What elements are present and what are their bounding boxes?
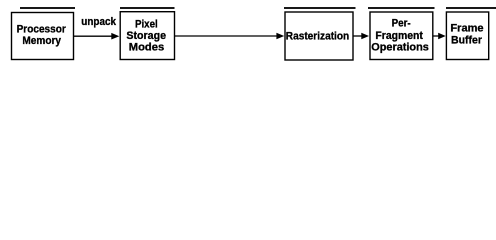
svg-text:Buffer: Buffer [451, 35, 483, 47]
label unpack [81, 16, 116, 28]
svg-text:Frame: Frame [450, 23, 483, 35]
arrow Per-Fragment Operations to Frame Buffer [433, 33, 446, 40]
svg-text:Memory: Memory [22, 35, 61, 47]
partial line (cropped box bottom) above Pixel Storage Modes [120, 7, 175, 9]
partial line (cropped box bottom) above Frame Buffer [446, 7, 496, 9]
partial line (cropped box bottom) above Rasterization [284, 7, 356, 9]
partial line (cropped box bottom) above Per-Fragment Operations [368, 7, 435, 9]
svg-text:Pixel: Pixel [135, 19, 158, 31]
arrow Rasterization to Per-Fragment Operations [354, 33, 370, 40]
box Processor Memory [12, 13, 74, 60]
wire: long arrow Pixel Storage Modes to Rasterization [175, 33, 284, 40]
svg-text:unpack: unpack [81, 16, 116, 28]
partial line (cropped box bottom) above Processor Memory [20, 7, 75, 9]
svg-text:Fragment: Fragment [375, 30, 423, 42]
box Rasterization [285, 12, 353, 60]
box Pixel Storage Modes [120, 12, 174, 60]
svg-text:Operations: Operations [371, 41, 429, 53]
box Frame Buffer [446, 12, 488, 60]
svg-text:Modes: Modes [129, 42, 164, 54]
svg-text:Storage: Storage [126, 30, 166, 42]
box Per-Fragment Operations [370, 12, 433, 60]
svg-text:Per-: Per- [392, 18, 411, 30]
arrow unpack: Processor Memory to Pixel Storage Modes [74, 33, 119, 40]
svg-text:Rasterization: Rasterization [286, 30, 350, 42]
